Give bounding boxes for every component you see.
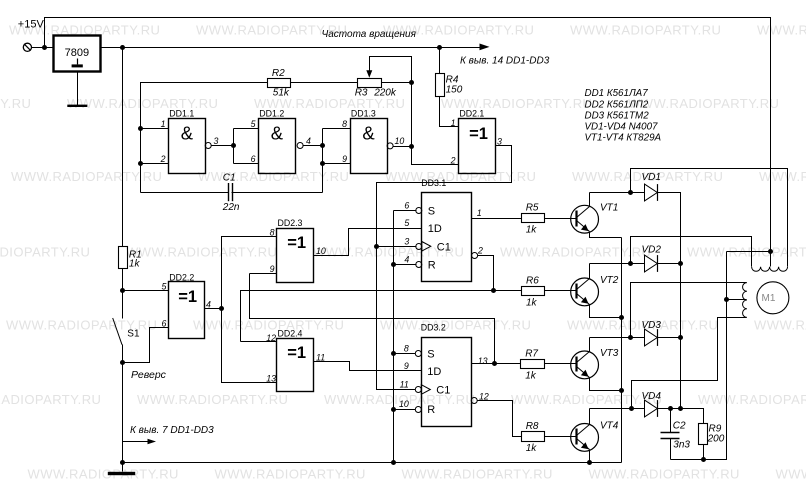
svg-text:&: & (362, 123, 375, 144)
label 3n3 (673, 439, 690, 450)
svg-text:DD1.1: DD1.1 (169, 109, 194, 119)
svg-text:VT2: VT2 (600, 275, 619, 286)
wire winding B bottom to VD4 anode (632, 318, 747, 409)
svg-text:WWW.RADIOPARTY.RU: WWW.RADIOPARTY.RU (28, 467, 179, 482)
label 7809 (65, 47, 89, 59)
wire SR net vertical (393, 211, 395, 463)
svg-text:VT1: VT1 (600, 202, 618, 213)
svg-text:2: 2 (160, 154, 166, 164)
svg-text:Частота вращения: Частота вращения (322, 29, 417, 40)
pin 2 label DD1.1 (160, 154, 166, 164)
parts list line 4 (585, 121, 659, 132)
label 1k R6 (526, 298, 538, 309)
wire DD3.1 C (377, 246, 417, 248)
wire winding A center tap (770, 252, 772, 267)
node Q2 / R7 (492, 361, 497, 366)
node DD3.1 C on C-net (374, 244, 379, 249)
resistor R4 (436, 74, 445, 97)
label DD1.1 (169, 109, 194, 119)
bubble DD3.1 pin2 (472, 253, 478, 259)
wire DD3.2 R (394, 409, 416, 411)
bubble DD3.2 R input (415, 407, 421, 413)
transistor VT3 emitter stroke (577, 367, 590, 378)
wire VD1 anode span (631, 192, 645, 194)
wire DD3.1 out1 to R5 (472, 218, 522, 220)
svg-text:5: 5 (251, 119, 256, 129)
label DD3.1 (421, 178, 446, 188)
motor winding B (743, 283, 747, 318)
node VT3 emitter on bus (619, 388, 624, 393)
diode VD1 cathode bar (657, 184, 659, 201)
text 1D DD3.2 (427, 366, 441, 378)
svg-text:WWW.RADIOPARTY.RU: WWW.RADIOPARTY.RU (754, 318, 806, 333)
parts list line 1 (585, 88, 649, 99)
motor winding A (752, 267, 788, 272)
wire DD2.1 out (377, 146, 512, 390)
wire Q1bar long to DD2.4 pin12 (241, 291, 494, 342)
transistor VT2 collector stroke (577, 279, 590, 290)
svg-text:9: 9 (342, 154, 347, 164)
wire R4 to DD2.1 pin1 (440, 97, 459, 127)
wire left rail upper (122, 48, 124, 247)
svg-text:WWW.RADIOPARTY.RU: WWW.RADIOPARTY.RU (385, 169, 536, 184)
svg-text:5: 5 (404, 218, 409, 228)
label R9 (709, 424, 722, 435)
wire +15V top rail (45, 18, 771, 252)
svg-text:6: 6 (404, 201, 409, 211)
label R1 (129, 250, 142, 261)
svg-text:10: 10 (399, 399, 409, 409)
svg-text:WWW.RADIOPARTY.RU: WWW.RADIOPARTY.RU (193, 318, 344, 333)
transistor VT3 emitter arrow (581, 370, 589, 377)
svg-text:WWW.RADIOPARTY.RU: WWW.RADIOPARTY.RU (402, 467, 553, 482)
label Chastota vrashcheniya (322, 29, 417, 40)
svg-text:11: 11 (400, 380, 409, 390)
node winding B center tap (724, 297, 729, 302)
text R DD3.2 (427, 404, 435, 416)
potentiometer R3 (358, 79, 382, 88)
node R9 bottom (701, 457, 706, 462)
transistor VT1 emitter arrow (581, 224, 589, 231)
wire DD3.2 S (394, 353, 416, 355)
transistor VT1 emitter stroke (577, 221, 590, 232)
svg-text:200: 200 (707, 434, 725, 445)
wire DD2.2 out to DD2.3 pin8 (222, 237, 277, 309)
pin 9 label DD1.3 (342, 154, 347, 164)
wire VD2 cathode (658, 263, 681, 265)
node DD1.1 pin2 (138, 161, 143, 166)
svg-text:150: 150 (446, 85, 463, 96)
svg-text:1k: 1k (525, 371, 537, 382)
transistor VT4 emitter stroke (577, 439, 590, 450)
svg-text:13: 13 (478, 356, 488, 366)
wire DD2.2 out (205, 308, 222, 310)
wire VD2 anode span (631, 263, 645, 265)
transistor VT1 base bar (575, 211, 577, 227)
wire 7809 output (101, 47, 123, 49)
svg-text:2: 2 (477, 246, 483, 256)
bubble DD1.1 output (205, 143, 211, 149)
wire 9V rail right / frequency line (123, 47, 480, 49)
transistor VT1 circle (571, 205, 599, 233)
pin 8 label DD3.2 (404, 344, 409, 354)
svg-text:VT3: VT3 (600, 348, 619, 359)
svg-text:R: R (427, 404, 435, 416)
diode VD4 cathode bar (657, 400, 659, 417)
svg-text:1: 1 (451, 118, 456, 128)
transistor VT4 base bar (575, 429, 577, 445)
svg-text:1k: 1k (526, 298, 538, 309)
svg-text:R3: R3 (355, 88, 368, 99)
svg-text:22n: 22n (222, 202, 240, 213)
parts list line 2 (585, 99, 649, 110)
transistor VT4 collector stroke (577, 425, 590, 436)
label VT3 (600, 348, 619, 359)
svg-text:1k: 1k (129, 259, 141, 270)
wire VD3 anode span (631, 337, 645, 339)
symbol DD2.3 (287, 234, 306, 252)
node ground left (120, 460, 125, 465)
wire DD1.3 pin9 (323, 163, 351, 165)
wire R2 to R3 (291, 82, 358, 84)
pin 10 label DD1.3 (395, 136, 405, 146)
motor M1 circle (757, 282, 789, 314)
label VD2 (642, 245, 662, 256)
svg-text:DD1.2: DD1.2 (259, 109, 284, 119)
pin 10 label DD2.3 (316, 246, 326, 256)
node VD4 anode (629, 406, 634, 411)
svg-text:VD1-VD4 N4007: VD1-VD4 N4007 (585, 121, 659, 132)
pin 12 label DD2.4 (266, 333, 276, 343)
wire R9 bottom (703, 445, 705, 460)
wire VD4 anode span (632, 408, 645, 410)
node VD3 anode (628, 335, 633, 340)
svg-text:WWW.RADIOPARTY.RU: WWW.RADIOPARTY.RU (757, 23, 806, 38)
svg-text:8: 8 (270, 227, 275, 237)
node VD2 anode (628, 261, 633, 266)
pin 1 label DD3.1 (477, 208, 482, 218)
svg-text:К выв. 14 DD1-DD3: К выв. 14 DD1-DD3 (460, 56, 550, 67)
symbol DD1.3 (362, 123, 375, 144)
wire DD1.2 pin6 (234, 163, 259, 165)
arrowhead R3 wiper (366, 70, 372, 78)
transistor VT3 collector stroke (577, 352, 590, 363)
wire connector to node (32, 47, 45, 49)
node DD3.2 R on SR-net (391, 407, 396, 412)
svg-text:DD1.3: DD1.3 (351, 109, 376, 119)
label 1k R8 (526, 443, 538, 454)
label R6 (526, 276, 539, 287)
bubble DD3.2 pin12 (471, 398, 477, 404)
node DD1.3 pin9 (320, 161, 325, 166)
svg-text:WWW.RADIOPARTY.RU: WWW.RADIOPARTY.RU (380, 318, 531, 333)
symbol DD2.4 (287, 344, 306, 362)
flip-flop DD3.2 box (422, 338, 472, 427)
label DD2.2 (169, 272, 194, 282)
gate DD2.4 box (277, 339, 314, 392)
pin 13 label DD3.2 (478, 356, 488, 366)
node VD1 anode (628, 190, 633, 195)
node DD1.2 input rail (231, 143, 236, 148)
wire VD2 anode up to winding A left (631, 237, 752, 267)
svg-text:=1: =1 (287, 234, 306, 252)
wire R3 right to DD1.3 output node (382, 83, 412, 147)
svg-text:8: 8 (404, 344, 409, 354)
text S DD3.2 (427, 349, 434, 361)
svg-text:VT1-VT4 КТ829А: VT1-VT4 КТ829А (585, 132, 662, 143)
symbol DD1.1 (181, 123, 194, 144)
wire emitter bus (621, 238, 623, 463)
dynamic-input triangle DD3.1 (422, 242, 431, 252)
label VD3 (642, 320, 662, 331)
label DD1.2 (259, 109, 284, 119)
svg-text:WWW.RADIOPARTY.RU: WWW.RADIOPARTY.RU (698, 392, 806, 407)
label 200 (707, 434, 725, 445)
text R DD3.1 (428, 260, 436, 272)
wire +15 to winding tap join (727, 251, 771, 253)
wire R6 to VT2 base (545, 290, 578, 292)
parts list line 3 (585, 110, 650, 121)
svg-text:3: 3 (404, 236, 409, 246)
ground symbol bottom (108, 472, 135, 475)
label VD1 (642, 172, 661, 183)
svg-text:DD1 К561ЛА7: DD1 К561ЛА7 (585, 88, 649, 99)
node C2 top (668, 406, 673, 411)
label +15V (18, 19, 45, 31)
svg-text:1D: 1D (428, 223, 442, 235)
svg-text:1: 1 (161, 119, 166, 129)
transistor VT2 base bar (575, 284, 577, 299)
svg-text:=1: =1 (178, 288, 197, 306)
wire 7809 ground stem (77, 72, 79, 106)
svg-text:C1: C1 (436, 385, 450, 397)
svg-text:1k: 1k (526, 443, 538, 454)
symbol DD2.1 (469, 125, 488, 143)
label VT1 (600, 202, 618, 213)
svg-text:R5: R5 (526, 203, 539, 214)
pin 8 label DD1.3 (342, 119, 347, 129)
pin 4 label DD2.2 (206, 300, 211, 310)
label R4 (446, 75, 459, 86)
wire DD1.1 pin1 (141, 128, 169, 130)
svg-text:WWW.RADIOPARTY.RU: WWW.RADIOPARTY.RU (137, 392, 288, 407)
transistor VT3 base bar (575, 357, 577, 372)
wire VT2 emitter (590, 305, 622, 318)
resistor R9 (699, 424, 708, 445)
svg-text:=1: =1 (469, 125, 488, 143)
svg-text:C1: C1 (437, 241, 451, 253)
svg-text:3: 3 (214, 136, 219, 146)
svg-text:9: 9 (270, 264, 275, 274)
wire DD3.2 C (377, 389, 416, 391)
transistor VT3 circle (571, 351, 599, 379)
svg-text:WWW.RADIOPARTY.RU: WWW.RADIOPARTY.RU (0, 96, 31, 111)
node VT2 emitter on bus (619, 315, 624, 320)
svg-text:WWW.RADIOPARTY.RU: WWW.RADIOPARTY.RU (759, 169, 806, 184)
gate DD2.2 box (169, 282, 205, 339)
wire VT1 collector (589, 193, 591, 207)
svg-text:R8: R8 (526, 421, 539, 432)
symbol DD2.2 (178, 288, 197, 306)
svg-text:M1: M1 (762, 293, 776, 304)
pin 6 label DD3.1 (404, 201, 409, 211)
label DD3.2 (421, 323, 446, 333)
parts list line 5 (585, 132, 662, 143)
svg-text:WWW.RADIOPARTY.RU: WWW.RADIOPARTY.RU (776, 467, 806, 482)
pin 13 label DD2.4 (266, 374, 276, 384)
transistor VT4 circle (571, 424, 599, 452)
label R3 (355, 88, 368, 99)
wire DD1.2 out (303, 145, 323, 147)
arrowhead frequency line (480, 44, 490, 51)
resistor R2 (268, 79, 291, 88)
flip-flop DD3.1 box (422, 193, 472, 282)
gate DD1.3 box (351, 119, 388, 174)
pin 1 label DD2.1 (451, 118, 456, 128)
gate DD1.2 box (259, 119, 296, 174)
wire VD3 anode up to winding B top (631, 283, 747, 338)
label R5 (526, 203, 539, 214)
pin 11 label DD2.4 (316, 353, 325, 363)
wire VT3 collector (589, 338, 591, 352)
svg-text:6: 6 (161, 319, 166, 329)
label 220k (373, 88, 397, 99)
bubble DD3.2 C1 input (415, 387, 421, 393)
node VD2 cathode on bus (678, 261, 683, 266)
wire ground rail (123, 462, 622, 464)
pin 4 label DD3.1 (404, 255, 409, 265)
node cathode bus end (678, 406, 683, 411)
label DD2.4 (278, 328, 303, 338)
pin 5 label DD2.2 (161, 281, 166, 291)
wire DD1.2 input rail (233, 129, 235, 164)
pin 9 label DD2.3 (270, 264, 275, 274)
svg-text:1: 1 (477, 208, 482, 218)
wire VT3 emitter (590, 378, 622, 391)
svg-text:R7: R7 (525, 349, 538, 360)
wire DD1.1 out (212, 145, 234, 147)
wire C2 bottom stem (670, 439, 672, 460)
diode VD3 triangle (645, 329, 658, 346)
svg-text:К выв. 7 DD1-DD3: К выв. 7 DD1-DD3 (130, 425, 214, 436)
svg-text:WWW.RADIOPARTY.RU: WWW.RADIOPARTY.RU (11, 169, 162, 184)
label R7 (525, 349, 538, 360)
text 1D DD3.1 (428, 223, 442, 235)
pin 10 label DD3.2 (399, 399, 409, 409)
node DD2.2 pin5 (120, 288, 125, 293)
wire R1 to S1 (122, 269, 124, 319)
svg-text:+15V: +15V (18, 19, 45, 31)
label R2 (272, 68, 285, 79)
node at 7809 input (42, 45, 47, 50)
text C1 DD3.1 (437, 241, 451, 253)
node winding A center tap (768, 249, 773, 254)
svg-text:10: 10 (316, 246, 326, 256)
wire C1 left (141, 192, 229, 194)
svg-text:R2: R2 (272, 68, 285, 79)
node DD2.2 output (219, 306, 224, 311)
svg-text:WWW.RADIOPARTY.RU: WWW.RADIOPARTY.RU (628, 96, 779, 111)
pin 3 label DD3.1 (404, 236, 409, 246)
label DD2.1 (459, 109, 484, 119)
wire DD1.3 pin8 (323, 128, 351, 130)
capacitor C2 (661, 433, 680, 439)
svg-text:220k: 220k (373, 88, 397, 99)
transistor VT4 emitter arrow (581, 442, 589, 449)
svg-text:VD1: VD1 (642, 172, 661, 183)
transistor VT2 circle (571, 278, 599, 306)
wire Q2 long to DD2.3 pin9 (250, 274, 495, 364)
bubble DD3.1 S input (416, 208, 422, 214)
wire DD2.4 pin12 (241, 341, 277, 343)
pin 3 label DD2.1 (497, 137, 502, 147)
resistor R7 (521, 360, 545, 369)
node 9V rail (120, 45, 125, 50)
capacitor C1 (229, 183, 233, 201)
node VT4 emitter on ground rail (587, 460, 592, 465)
resistor R6 (522, 287, 545, 296)
diode VD2 cathode bar (657, 255, 659, 272)
label C2 (673, 420, 686, 431)
switch S1 blade (113, 318, 122, 345)
gate DD2.1 box (459, 119, 496, 174)
svg-text:10: 10 (395, 136, 405, 146)
wire R2 left to DD1.1 input rail (141, 83, 268, 193)
wire VT4 collector to VD4 (590, 408, 632, 410)
wire Q1bar to R6 (494, 290, 522, 292)
label S1 (127, 329, 140, 340)
wire DD2.3 out to DD3.1 1D (314, 229, 422, 256)
svg-text:7809: 7809 (65, 47, 89, 59)
svg-text:4: 4 (306, 136, 311, 146)
wire DD2.2 pin6 (123, 328, 169, 363)
wire DD1.3 out to DD2.1 pin2 (412, 147, 459, 165)
svg-text:13: 13 (266, 374, 276, 384)
svg-text:WWW.RADIOPARTY.RU: WWW.RADIOPARTY.RU (687, 245, 806, 260)
svg-text:WWW.RADIOPARTY.RU: WWW.RADIOPARTY.RU (67, 96, 218, 111)
label 1k R7 (525, 371, 537, 382)
svg-text:4: 4 (404, 255, 409, 265)
svg-text:C2: C2 (673, 420, 686, 431)
text C1 DD3.2 (436, 385, 450, 397)
svg-text:&: & (181, 123, 194, 144)
wire C2 top stem (670, 409, 672, 433)
gate DD2.3 box (277, 229, 314, 283)
label DD2.3 (278, 218, 303, 228)
svg-text:5: 5 (161, 281, 166, 291)
wire winding B center tap (727, 299, 747, 301)
node DD1.3 output (409, 144, 414, 149)
wire DD3.1 R (394, 264, 417, 266)
svg-text:WWW.RADIOPARTY.RU: WWW.RADIOPARTY.RU (0, 392, 101, 407)
label C1 (223, 172, 236, 183)
node R3 right (409, 80, 414, 85)
transistor VT2 emitter arrow (581, 297, 589, 304)
node DD1.3 input rail (320, 143, 325, 148)
diode VD3 cathode bar (657, 329, 659, 346)
svg-text:2: 2 (450, 155, 456, 165)
svg-text:WWW.RADIOPARTY.RU: WWW.RADIOPARTY.RU (0, 245, 90, 260)
node VD3 cathode on bus (678, 335, 683, 340)
svg-text:C1: C1 (223, 172, 236, 183)
wire R8 to VT4 base (545, 436, 578, 438)
node Q1bar / R6 (491, 288, 496, 293)
wire VT4 emitter (589, 450, 591, 463)
svg-text:S: S (428, 206, 435, 218)
label 1k R5 (526, 225, 538, 236)
pin 5 label DD1.2 (251, 119, 256, 129)
svg-text:WWW.RADIOPARTY.RU: WWW.RADIOPARTY.RU (570, 23, 721, 38)
